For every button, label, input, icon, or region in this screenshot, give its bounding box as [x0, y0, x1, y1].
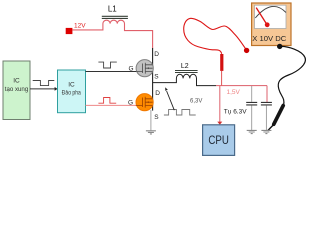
svg-text:L2: L2: [181, 63, 189, 70]
svg-text:X 10V DC: X 10V DC: [252, 36, 286, 43]
svg-text:L1: L1: [108, 4, 117, 13]
svg-text:1,5V: 1,5V: [227, 89, 241, 96]
svg-text:6,3V: 6,3V: [190, 99, 202, 105]
svg-text:IC: IC: [68, 81, 75, 88]
svg-text:tạo xung: tạo xung: [5, 86, 29, 93]
svg-text:12V: 12V: [74, 23, 86, 30]
svg-text:G: G: [128, 66, 133, 73]
svg-text:S: S: [154, 114, 159, 121]
svg-text:D: D: [155, 90, 160, 97]
svg-text:G: G: [128, 99, 133, 106]
svg-text:Tụ 6.3V: Tụ 6.3V: [224, 108, 247, 115]
svg-text:IC: IC: [13, 78, 20, 85]
svg-text:CPU: CPU: [208, 135, 229, 147]
svg-text:D: D: [154, 51, 159, 58]
svg-text:Đảo pha: Đảo pha: [62, 90, 81, 97]
svg-text:S: S: [154, 74, 159, 81]
